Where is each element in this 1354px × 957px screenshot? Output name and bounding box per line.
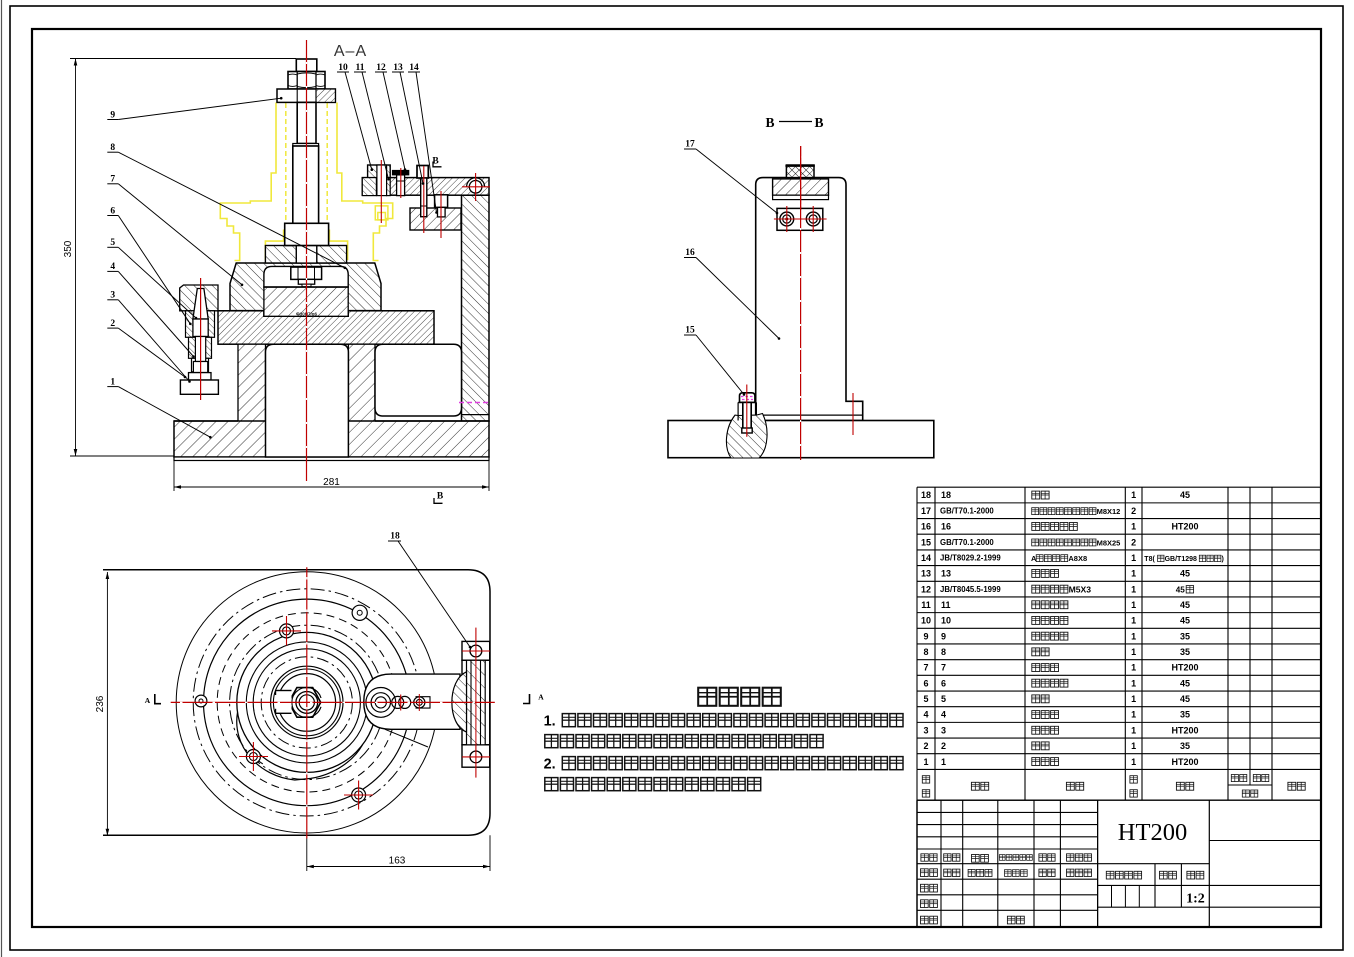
workpiece hidden lines (yellow dashed) (285, 103, 287, 252)
svg-text:2: 2 (941, 741, 946, 751)
svg-text:18: 18 (390, 532, 400, 542)
svg-text:HT200: HT200 (1171, 663, 1198, 673)
svg-text:8: 8 (110, 143, 115, 153)
svg-text:1: 1 (1131, 522, 1136, 532)
svg-text:45: 45 (1180, 600, 1190, 610)
svg-text:HT200: HT200 (1118, 819, 1187, 846)
BOM header text (922, 776, 929, 783)
technical requirements title (698, 688, 716, 706)
B-B partial section blob (726, 414, 767, 459)
svg-text:M8X12: M8X12 (1097, 507, 1121, 516)
svg-text:1: 1 (941, 757, 946, 767)
svg-text:11: 11 (941, 600, 951, 610)
svg-text:18: 18 (941, 490, 951, 500)
fixture body center pillar (348, 344, 375, 421)
open washer item 9 (277, 89, 335, 102)
svg-text:11: 11 (921, 600, 931, 610)
B-B plate lower strip (773, 195, 829, 199)
bushing upper block item 10 (368, 165, 391, 178)
base bottom strip (174, 457, 489, 461)
disc top flange band (265, 246, 346, 264)
B-B right step red tick (852, 393, 854, 435)
svg-text:18: 18 (921, 490, 931, 500)
dimension 350 (70, 58, 296, 60)
plan circle r60 (246, 642, 367, 763)
svg-text:6: 6 (110, 206, 115, 216)
B-B column seam on base (756, 414, 863, 416)
mandrel mid step (293, 144, 319, 147)
svg-text:B: B (814, 115, 823, 130)
locating pin cone item 4 (193, 289, 208, 320)
svg-text:10: 10 (338, 63, 348, 73)
B-B knurled thumb block (786, 165, 814, 178)
title block grid (917, 800, 1321, 927)
mandrel threaded top section (297, 102, 316, 143)
svg-text:1: 1 (1131, 757, 1136, 767)
arm boss circles (366, 688, 396, 718)
svg-text:7: 7 (923, 663, 928, 673)
svg-text:13: 13 (921, 569, 931, 579)
B-B bolt15 centerline (746, 385, 748, 437)
right clamp hatched strip (467, 660, 486, 745)
clamp top bolt (470, 645, 482, 657)
B-B counterbore lines (738, 401, 743, 403)
bushing screw item 12 (392, 170, 408, 175)
svg-text:45: 45 (1180, 678, 1190, 688)
dimension 163 (306, 839, 308, 872)
svg-text:17: 17 (921, 506, 931, 516)
svg-text:45: 45 (1180, 569, 1190, 579)
svg-text:35: 35 (1180, 741, 1190, 751)
svg-text:9: 9 (923, 631, 928, 641)
svg-text:4: 4 (941, 710, 946, 720)
support block below plate (410, 208, 461, 230)
support pin item 14 (435, 195, 448, 208)
workpiece phantom outline (yellow) (220, 103, 276, 261)
BOM table grid (917, 487, 1321, 800)
red centerlines of bushing area (380, 160, 382, 223)
svg-text:12: 12 (376, 63, 386, 73)
svg-text:45: 45 (1180, 694, 1190, 704)
central window of base (266, 344, 349, 457)
svg-text:1: 1 (1131, 631, 1136, 641)
svg-text:35: 35 (1180, 710, 1190, 720)
handle tangent line (385, 729, 428, 747)
svg-text:): ) (1222, 556, 1224, 563)
svg-text:14: 14 (921, 553, 931, 563)
fixture body right column (462, 195, 490, 421)
mandrel nut lock cap (296, 59, 317, 72)
column step at base (462, 414, 490, 416)
left trim edge line (1, 0, 3, 957)
svg-text:3: 3 (941, 725, 946, 735)
svg-text:16: 16 (921, 522, 931, 532)
svg-text:1: 1 (110, 377, 115, 387)
svg-text:2: 2 (923, 741, 928, 751)
clamp bottom washer (180, 380, 218, 394)
rotary disc trapezoid (230, 263, 381, 316)
svg-text:9: 9 (110, 110, 115, 120)
plan thread arc (292, 688, 321, 718)
bushing flange right (387, 178, 391, 196)
B-B bolt 15 shank (743, 402, 751, 431)
clamp lens hatched (452, 672, 467, 732)
right clamp strip (462, 660, 490, 745)
svg-text:1: 1 (1131, 678, 1136, 688)
clamp bushing upper (186, 311, 215, 338)
bushing flange left (362, 178, 376, 196)
svg-text:1: 1 (1131, 694, 1136, 704)
washer inside cavity (298, 279, 314, 284)
nut inside cavity (291, 267, 322, 279)
svg-text:1: 1 (1131, 710, 1136, 720)
clamp bushing lower step (189, 337, 212, 358)
B-B vertical centerline (800, 146, 802, 460)
svg-text:2: 2 (110, 319, 115, 329)
right window of base (375, 344, 462, 416)
svg-text:12: 12 (921, 584, 931, 594)
svg-text:236: 236 (95, 695, 106, 712)
plan circle r53 (253, 649, 360, 756)
drill plate item 13 (362, 178, 489, 196)
B-B left bolt (780, 212, 794, 226)
right clamp inner verticals (470, 660, 472, 745)
clamp bottom bolt (470, 751, 482, 763)
plan bushing circles (271, 666, 343, 738)
B-B right bolt (806, 212, 820, 226)
svg-text:3: 3 (110, 291, 115, 301)
arm middle pin circles (392, 696, 404, 708)
plan screw bottom (352, 788, 366, 802)
dimension 236 (106, 572, 108, 836)
open washer hatched right part (316, 89, 335, 102)
plan plate holes (195, 695, 207, 707)
fixture body left wall (238, 344, 266, 421)
plan center circles (296, 692, 318, 714)
plate mounting hole boss (469, 181, 482, 194)
A-A main centerline (306, 40, 308, 52)
svg-text:17: 17 (685, 140, 695, 150)
fixture body base slab (174, 421, 489, 457)
svg-text:1: 1 (1131, 647, 1136, 657)
band top edge line (180, 310, 434, 312)
svg-text:45: 45 (1176, 585, 1186, 594)
svg-text:9: 9 (941, 631, 946, 641)
plan hidden circle r89 dashed (217, 613, 396, 792)
svg-text:5: 5 (941, 694, 946, 704)
svg-text:1: 1 (1131, 616, 1136, 626)
svg-text:8: 8 (923, 647, 928, 657)
A-A centerline below base (306, 460, 308, 481)
workpiece hub contour (yellow) (265, 230, 283, 261)
svg-text:2: 2 (1131, 537, 1136, 547)
B-B bolt plate (777, 208, 823, 230)
svg-text:A: A (538, 693, 544, 702)
clamp centerline (200, 278, 202, 400)
svg-text:281: 281 (323, 477, 340, 488)
hex nut (288, 72, 325, 90)
svg-text:45: 45 (1180, 490, 1190, 500)
svg-text:JB/T8029.2-1999: JB/T8029.2-1999 (940, 554, 1001, 563)
svg-text:45: 45 (1180, 616, 1190, 626)
plan cam ring outline (237, 632, 377, 772)
plan handle arm (364, 674, 460, 729)
svg-text:1.: 1. (544, 714, 556, 730)
plan dash-dot circle r77 (230, 625, 384, 779)
arm slot and screw (416, 697, 431, 708)
plan centerlines (171, 701, 495, 703)
B-B column body (756, 178, 863, 421)
title block stage row (1106, 871, 1114, 879)
base top edge lines (174, 420, 238, 422)
svg-text:14: 14 (409, 63, 419, 73)
plan cam bulge lower-left (237, 712, 363, 780)
svg-text:5: 5 (923, 694, 928, 704)
B-B knurl centerline tick (800, 146, 802, 210)
svg-text:M5X3: M5X3 (1069, 584, 1092, 594)
dimension 281 (173, 460, 175, 491)
boss top edge in cavity (264, 286, 348, 288)
svg-text:GB/T70.1-2000: GB/T70.1-2000 (940, 507, 994, 516)
svg-text:1: 1 (1131, 553, 1136, 563)
plan bolt circle dash-dot (193, 589, 420, 816)
svg-text:7: 7 (110, 175, 115, 185)
svg-text:16: 16 (941, 522, 951, 532)
pin body (193, 319, 208, 337)
svg-text:M8X25: M8X25 (1097, 538, 1121, 547)
mandrel through flange slot (295, 246, 297, 264)
svg-text:6: 6 (923, 678, 928, 688)
svg-text:4: 4 (110, 262, 115, 272)
fixture body top band (218, 311, 434, 344)
svg-text:B: B (765, 115, 774, 130)
right clamp block top (462, 641, 490, 660)
svg-text:1: 1 (1131, 569, 1136, 579)
svg-text:HT200: HT200 (1171, 522, 1198, 532)
mandrel body (293, 146, 319, 223)
svg-text:3: 3 (923, 725, 928, 735)
svg-text:10: 10 (941, 616, 951, 626)
plan outer circle (176, 572, 437, 833)
workpiece pre-drilled hole steps (yellow) (375, 206, 388, 220)
svg-text:163: 163 (389, 856, 406, 867)
svg-text:15: 15 (921, 537, 931, 547)
svg-text:11: 11 (356, 63, 365, 73)
svg-text:GB/T70.1-2000: GB/T70.1-2000 (940, 538, 994, 547)
clamp small block (189, 373, 212, 380)
svg-text:7: 7 (941, 663, 946, 673)
B-B hatched plate (773, 179, 829, 195)
svg-text:A8X8: A8X8 (1068, 554, 1087, 563)
svg-text:16: 16 (685, 248, 695, 258)
svg-text:B: B (437, 492, 444, 502)
body center boss inside disc (264, 287, 348, 316)
svg-text:13: 13 (393, 63, 403, 73)
svg-text:2: 2 (1131, 506, 1136, 516)
svg-text:A: A (145, 696, 151, 705)
svg-text:13: 13 (941, 569, 951, 579)
title block labels (921, 854, 928, 861)
svg-text:1: 1 (1131, 600, 1136, 610)
right clamp block bottom (462, 745, 490, 767)
plate hole crosshair (462, 186, 490, 188)
svg-text:5: 5 (110, 238, 115, 248)
svg-text:6: 6 (941, 678, 946, 688)
clamp strip centerline (475, 662, 477, 745)
svg-text:1: 1 (1131, 725, 1136, 735)
svg-text:HT200: HT200 (1171, 757, 1198, 767)
svg-text:T8(: T8( (1144, 556, 1155, 563)
mandrel flange (285, 223, 329, 245)
svg-text:1: 1 (1131, 584, 1136, 594)
svg-text:GB/T1298: GB/T1298 (1165, 556, 1197, 563)
svg-text:4: 4 (923, 710, 928, 720)
svg-text:1:2: 1:2 (1186, 892, 1205, 907)
svg-text:A–A: A–A (334, 43, 367, 60)
magenta locating dashed line (459, 402, 491, 404)
plan screw bottom-left (246, 750, 260, 764)
plan dash-dot r45 (261, 657, 352, 748)
svg-text:35: 35 (1180, 647, 1190, 657)
plan screw top-left (280, 624, 294, 638)
svg-text:10: 10 (921, 616, 931, 626)
svg-text:15: 15 (685, 326, 695, 336)
plan open washer slot (276, 691, 292, 714)
svg-text:1: 1 (1131, 741, 1136, 751)
svg-text:350: 350 (63, 240, 74, 257)
svg-text:HT200: HT200 (1171, 725, 1198, 735)
svg-text:1: 1 (1131, 663, 1136, 673)
svg-text:1: 1 (1131, 490, 1136, 500)
flange slot for mandrel (296, 246, 317, 264)
bushing bore (377, 165, 387, 196)
B-B bolt item 15 head (740, 393, 755, 403)
plan hex nut (289, 688, 321, 718)
svg-text:JB/T8045.5-1999: JB/T8045.5-1999 (940, 585, 1001, 594)
B-B bolt crosshairs (774, 218, 827, 220)
plan view plate outline (103, 570, 490, 836)
svg-text:1: 1 (923, 757, 928, 767)
svg-text:8: 8 (941, 647, 946, 657)
clamp top block (180, 285, 218, 311)
socket screw item 17 left (417, 166, 428, 179)
plan circle r103 (203, 599, 410, 806)
disc cavity (264, 266, 348, 287)
B-B base plate (668, 421, 934, 458)
svg-text:2.: 2. (544, 757, 556, 773)
svg-text:35: 35 (1180, 631, 1190, 641)
